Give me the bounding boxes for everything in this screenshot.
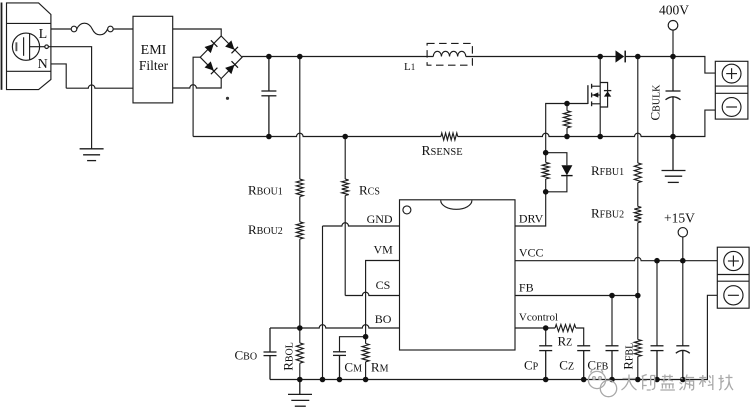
zener diode ZD1: [546, 153, 573, 192]
svg-text:RFBU1: RFBU1: [591, 163, 624, 178]
svg-text:RBOU1: RBOU1: [248, 183, 283, 198]
svg-text:VCC: VCC: [519, 246, 544, 260]
bridge diode D1 (upper-left edge): [204, 40, 217, 53]
svg-text:EMI: EMI: [141, 43, 167, 58]
plug earth pin circle: [45, 45, 49, 49]
wire Vcontrol to CP: [545, 328, 547, 346]
svg-text:RBOU2: RBOU2: [248, 222, 283, 237]
svg-text:CZ: CZ: [559, 358, 574, 373]
svg-text:RZ: RZ: [558, 334, 573, 349]
wire GND vertical: [322, 226, 324, 380]
wire 400V to top rail: [672, 30, 674, 56]
svg-text:CS: CS: [376, 278, 391, 292]
wire EMI to bridge top: [173, 29, 222, 36]
svg-text:VM: VM: [374, 242, 394, 256]
wire bridge left vertex down to lower rail: [193, 57, 200, 136]
svg-text:+15V: +15V: [664, 211, 695, 226]
svg-text:N: N: [38, 57, 48, 72]
AC input plug J1 body: [2, 3, 51, 90]
svg-text:BO: BO: [375, 312, 392, 326]
wire fuse to EMI filter: [113, 28, 133, 30]
svg-text:RFBL: RFBL: [621, 343, 636, 370]
resistor RM: [362, 344, 369, 362]
wire RBOU1 to RBOU2: [299, 197, 301, 222]
capacitor CZ: [577, 346, 590, 380]
resistor RBOU2: [296, 222, 303, 239]
svg-text:CP: CP: [524, 358, 539, 373]
wire plug N to EMI filter: [66, 85, 133, 88]
svg-text:CM: CM: [344, 360, 362, 375]
svg-text:RFBU2: RFBU2: [591, 206, 624, 221]
wire RBOU2 to BO node: [299, 239, 301, 328]
L1 dashed enclosure: [427, 43, 472, 65]
resistor RFBL: [637, 296, 639, 340]
wire DRV pin: [515, 192, 546, 226]
ground GND3 (bulk cap): [662, 137, 686, 183]
svg-text:CBO: CBO: [235, 347, 258, 362]
svg-text:RM: RM: [371, 360, 389, 375]
capacitor C1 (after bridge): [261, 57, 276, 137]
wire bottom ground rail: [270, 295, 717, 379]
capacitor C2: [651, 346, 664, 380]
svg-text:GND: GND: [367, 212, 393, 226]
boost diode D5: [616, 50, 626, 62]
wire EMI to bridge bottom: [173, 79, 222, 88]
bridge diode D2 (upper-right edge): [225, 40, 238, 53]
inductor L1 coil: [433, 51, 465, 56]
resistor RFBU1: [634, 163, 641, 183]
terminal 400V: [668, 21, 678, 31]
svg-text:L1: L1: [404, 61, 415, 73]
controller IC U1 body: [400, 200, 516, 350]
svg-text:Filter: Filter: [139, 58, 169, 73]
wire top rail to RBOU1: [299, 57, 301, 180]
wire lower rail to RCS: [344, 137, 346, 180]
wire VM pin: [366, 261, 400, 344]
wire top rail L1 to diode: [466, 56, 616, 58]
wire +15V to VCC rail: [682, 237, 684, 346]
wire zener net to gate: [546, 104, 588, 153]
wire VCC to C2: [656, 261, 658, 346]
svg-text:RSENSE: RSENSE: [422, 143, 463, 158]
wire BO pin line: [270, 325, 400, 328]
capacitor CP: [539, 346, 552, 380]
wire earth pin to ground: [48, 47, 91, 149]
svg-text:L: L: [39, 27, 48, 42]
wire CM branch: [340, 337, 366, 352]
watermark logo and text: [588, 369, 733, 397]
IC pin-1 marker: [403, 206, 411, 214]
capacitor CM: [333, 352, 346, 380]
resistor R2 (gate-drive, parallel with zener): [545, 179, 547, 192]
wire top rail to RFBU1: [637, 57, 639, 163]
bridge diode D3 (lower-left edge): [204, 61, 217, 74]
wire lower rail right section: [458, 110, 716, 136]
svg-text:DRV: DRV: [519, 212, 544, 226]
IC notch: [441, 200, 472, 209]
wire RFBU2 to FB node: [637, 223, 639, 296]
terminal block TB1: [715, 61, 748, 119]
capacitor C3 (electrolytic): [676, 346, 690, 380]
wire FB pin line: [515, 295, 638, 297]
wire FB to CFB: [611, 296, 613, 346]
ground GND1 (mains earth): [80, 149, 104, 161]
wire top rail bridge to L1: [242, 56, 433, 58]
bridge diode D4 (lower-right edge): [225, 61, 238, 74]
EMI filter box U2: [133, 16, 173, 103]
terminal +15V: [678, 228, 687, 237]
wire RZ to CZ: [576, 328, 584, 346]
wire CS pin with hop over VM line: [345, 292, 399, 295]
resistor RBOL: [299, 328, 301, 343]
capacitor CBULK: [666, 57, 681, 137]
svg-text:FB: FB: [519, 281, 534, 295]
resistor RSENSE: [441, 133, 458, 140]
wire top rail diode to output: [625, 57, 715, 74]
terminal block TB2: [717, 247, 749, 308]
svg-text:RCS: RCS: [359, 183, 380, 198]
capacitor CBO: [264, 328, 277, 380]
stray dot: [226, 97, 229, 100]
wire N vertical: [51, 64, 66, 88]
wire RFBU1 to RFBU2: [637, 183, 639, 207]
wire Vcontrol pin: [515, 327, 555, 329]
svg-text:400V: 400V: [659, 3, 689, 18]
svg-text:CBULK: CBULK: [648, 84, 663, 121]
resistor R3 (gate pulldown): [566, 104, 568, 111]
MOSFET Q1: [588, 57, 611, 137]
ground GND2 (signal ground): [288, 380, 312, 407]
svg-text:CFB: CFB: [587, 358, 608, 373]
wire lower rail left section: [193, 133, 441, 136]
resistor RCS: [342, 179, 349, 195]
bridge rectifier BR1 diamond: [200, 36, 242, 79]
wire plug L to fuse: [51, 28, 71, 30]
wire GND pin to ground rail: [323, 223, 400, 226]
svg-text:RBOL: RBOL: [280, 342, 295, 371]
wire VCC pin to +15V block: [515, 257, 717, 260]
resistor RBOU1: [296, 179, 303, 197]
wire RCS to CS pin: [344, 196, 346, 296]
capacitor CFB: [606, 346, 619, 380]
fuse F1: [71, 23, 113, 35]
svg-text:Vcontrol: Vcontrol: [519, 311, 558, 323]
resistor RFBU2: [634, 206, 641, 222]
resistor RZ: [555, 325, 576, 332]
